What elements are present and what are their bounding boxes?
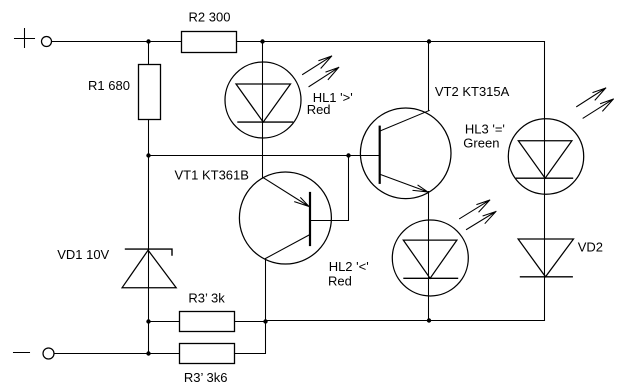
node junction R3 right bbox=[263, 319, 267, 323]
HL1 emission arrows bbox=[303, 56, 339, 87]
node junction mid (VT1 base branch) bbox=[346, 153, 350, 157]
HL3 emission arrows bbox=[577, 88, 614, 118]
svg-text:VT1 KT361B: VT1 KT361B bbox=[175, 168, 249, 183]
node junction mid-left bbox=[146, 153, 150, 157]
node junction HL2 bottom bbox=[427, 318, 431, 322]
terminal + (positive input) bbox=[15, 29, 52, 48]
label HL1 '>' Red bbox=[307, 90, 353, 117]
svg-text:Red: Red bbox=[328, 274, 352, 289]
wire VT2 collector riser bbox=[428, 42, 430, 111]
wire VT2 emitter to HL2 to bottom bbox=[428, 192, 430, 321]
node junction top (HL1 branch) bbox=[260, 39, 264, 43]
wire mid rail (reference node to VT2 base) bbox=[149, 155, 380, 157]
wire VT1 base branch bbox=[311, 156, 349, 221]
diode VD2 bbox=[518, 239, 573, 277]
svg-text:R1 680: R1 680 bbox=[88, 78, 130, 93]
zener diode VD1 bbox=[122, 249, 176, 288]
node junction top (VT2 collector) bbox=[427, 39, 431, 43]
svg-text:VD1 10V: VD1 10V bbox=[57, 247, 109, 262]
svg-text:R3’ 3k: R3’ 3k bbox=[188, 290, 225, 305]
svg-text:HL3 '=': HL3 '=' bbox=[465, 122, 505, 137]
wire bottom rail bbox=[54, 353, 179, 355]
HL2 emission arrows bbox=[460, 200, 496, 229]
LED HL3 bbox=[508, 119, 583, 194]
label HL3 '=' Green bbox=[463, 122, 505, 151]
LED HL2 bbox=[392, 220, 468, 296]
resistor R3' 3k6 bbox=[180, 344, 235, 364]
node junction left (R3 tap) bbox=[146, 319, 150, 323]
svg-text:R2 300: R2 300 bbox=[189, 9, 231, 24]
transistor VT1 bbox=[239, 172, 331, 264]
svg-text:VT2 KT315A: VT2 KT315A bbox=[435, 84, 510, 99]
resistor R3' 3k bbox=[180, 312, 235, 332]
svg-text:R3’ 3k6: R3’ 3k6 bbox=[184, 370, 228, 385]
node junction bottom-left bbox=[146, 351, 150, 355]
svg-text:Green: Green bbox=[463, 136, 499, 151]
wire bottom mid (R3 node to VD2 branch) bbox=[266, 320, 545, 322]
resistor R2 bbox=[182, 32, 237, 53]
resistor R1 bbox=[139, 65, 161, 120]
wire R3'3k6 right jog bbox=[235, 322, 266, 354]
transistor VT2 bbox=[360, 108, 451, 199]
wire HL1 branch (R2 to VT1 emitter) bbox=[262, 42, 264, 178]
wire left rail bbox=[148, 42, 150, 354]
wire right rail bbox=[544, 42, 546, 321]
svg-text:HL2 '<': HL2 '<' bbox=[329, 259, 369, 274]
wire R3'3k row bbox=[149, 321, 266, 323]
svg-text:VD2: VD2 bbox=[578, 240, 603, 255]
svg-text:Red: Red bbox=[307, 102, 331, 117]
wire top rail bbox=[52, 41, 545, 43]
LED HL1 bbox=[225, 62, 301, 138]
node junction top-left (R1 tap) bbox=[146, 39, 150, 43]
terminal - (negative input) bbox=[14, 348, 55, 359]
label HL2 '<' Red bbox=[328, 259, 369, 289]
wire VT1 collector drop bbox=[265, 259, 267, 322]
